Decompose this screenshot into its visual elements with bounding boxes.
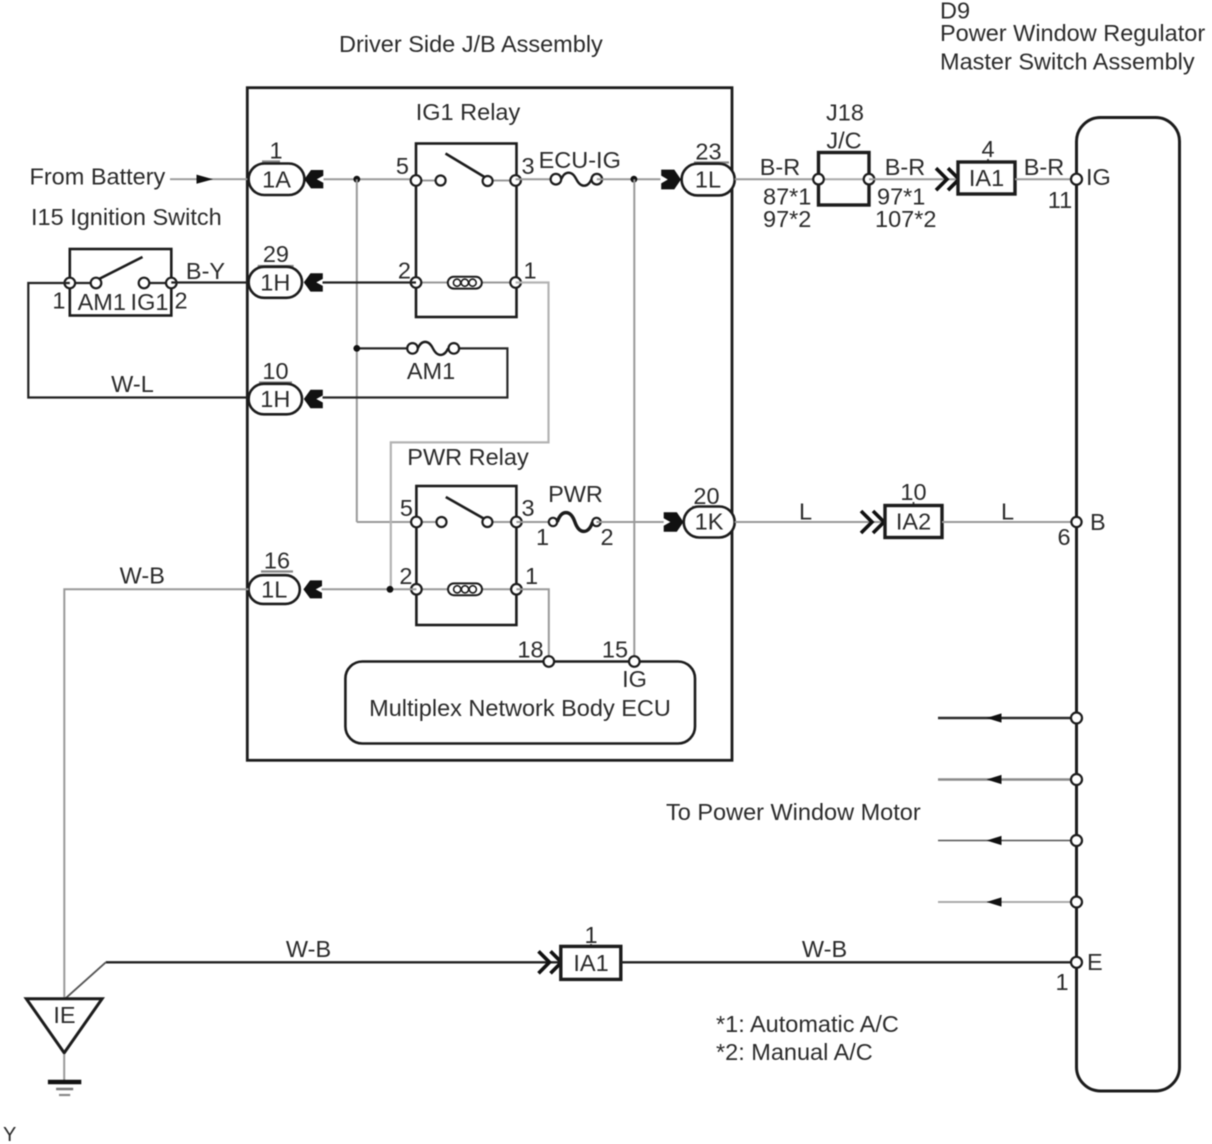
svg-text:J18: J18: [826, 100, 864, 126]
svg-text:PWR Relay: PWR Relay: [407, 444, 529, 470]
svg-text:B-Y: B-Y: [186, 258, 226, 284]
wire IG1 pin1 to ground net: [391, 283, 549, 590]
ignition switch pin 1: [65, 278, 76, 289]
svg-text:6: 6: [1057, 524, 1070, 550]
svg-text:4: 4: [981, 136, 994, 162]
connector oval 1H 10: [249, 384, 302, 415]
wire PWR pin3 to fuse: [516, 521, 550, 523]
svg-text:1L: 1L: [695, 167, 721, 193]
ECU pin 18: [544, 656, 555, 667]
junction node ECU-IG output: [631, 176, 638, 183]
wire PWR coil stubs: [416, 588, 448, 590]
wire IG1 pin5 to fixed contact: [416, 180, 441, 182]
svg-text:B-R: B-R: [885, 154, 925, 180]
relay IG1 pin 2: [411, 277, 422, 288]
svg-text:1: 1: [525, 563, 538, 589]
relay PWR pin 5: [411, 517, 422, 528]
connector wedge 23: [661, 170, 681, 190]
svg-text:PWR: PWR: [548, 481, 603, 507]
relay IG1 pin 5: [411, 175, 422, 186]
svg-text:W-B: W-B: [286, 936, 331, 962]
connector box IA1 bottom: [561, 946, 621, 979]
svg-text:23: 23: [695, 139, 721, 165]
svg-text:IA2: IA2: [896, 509, 931, 535]
fuse PWR: [549, 513, 601, 532]
wire W-B to ground: [64, 589, 248, 997]
wire 1H to IG1 relay pin 2: [323, 281, 417, 283]
svg-text:Y: Y: [3, 1124, 16, 1144]
svg-text:IG: IG: [622, 666, 647, 692]
wire IG1 pin3 to fuse: [516, 178, 556, 180]
label 10 terminal: [259, 358, 292, 384]
svg-text:I15 Ignition Switch: I15 Ignition Switch: [31, 204, 222, 230]
wire vertical battery feed to PWR relay pin 5: [356, 179, 358, 522]
wire IG1 coil stubs: [416, 282, 448, 284]
wire diagonal to ground: [66, 962, 106, 998]
wire J/C to IA1: [869, 178, 958, 180]
fuse AM1: [407, 342, 459, 355]
ground stub: [63, 1054, 65, 1080]
ignition switch pin 2: [166, 278, 177, 289]
svg-text:B: B: [1090, 509, 1106, 535]
wire ignition pin1 down: [28, 283, 248, 398]
relay PWR switch blade: [446, 497, 487, 521]
power window master switch D9 box: [1077, 118, 1180, 1092]
chevrons in-line connector bottom: [539, 951, 562, 973]
svg-text:5: 5: [400, 495, 413, 521]
connector oval 1L 23: [682, 164, 735, 196]
connector oval 1L 16: [249, 575, 300, 604]
svg-text:*2: Manual A/C: *2: Manual A/C: [716, 1039, 873, 1065]
svg-text:1H: 1H: [260, 270, 290, 296]
wire fuse to connector 1K: [597, 521, 664, 523]
connector box IA2: [885, 506, 942, 538]
connector oval 1K 20: [684, 507, 735, 538]
D9 terminal E: [1071, 957, 1082, 968]
arrow battery feed: [197, 175, 214, 184]
svg-text:W-L: W-L: [111, 371, 154, 397]
ECU box Multiplex Network Body ECU: [345, 662, 695, 744]
wire motor line 2: [938, 775, 1071, 784]
relay PWR pin 2: [411, 584, 422, 595]
wire AM1 loop: [323, 348, 508, 397]
wire ignition pin1 to AM1 contact: [70, 282, 96, 284]
junction node AM1 tap: [353, 345, 360, 352]
svg-text:To Power Window Motor: To Power Window Motor: [666, 799, 921, 825]
svg-text:*1: Automatic A/C: *1: Automatic A/C: [716, 1011, 899, 1037]
connector oval 1H 29: [249, 267, 302, 298]
wire PWR moving contact to pin3: [487, 521, 516, 523]
wire ignition IG1 contact to pin2: [144, 282, 171, 284]
svg-text:2: 2: [175, 288, 188, 314]
connector wedge 16: [303, 580, 322, 598]
svg-text:Master Switch Assembly: Master Switch Assembly: [940, 49, 1195, 75]
svg-text:IG1 Relay: IG1 Relay: [416, 99, 521, 125]
ignition switch contact AM1: [91, 278, 102, 289]
wire B-Y ignition to 1H: [171, 281, 248, 283]
junction block J/B box: [247, 88, 732, 761]
ground IE triangle: [26, 999, 102, 1053]
wire AM1 dot to fuse: [357, 347, 413, 349]
svg-text:L: L: [799, 499, 812, 525]
D9 terminal B: [1071, 517, 1081, 527]
label 23 terminal: [694, 139, 729, 165]
connector oval 1A: [249, 164, 305, 196]
relay IG1 pin 1: [510, 277, 521, 288]
svg-text:AM1: AM1: [407, 358, 455, 384]
svg-text:W-B: W-B: [120, 563, 165, 589]
svg-text:L: L: [1001, 499, 1014, 525]
svg-text:Power Window Regulator: Power Window Regulator: [940, 20, 1205, 46]
relay IG1 pin 3: [510, 175, 521, 186]
svg-text:16: 16: [264, 548, 290, 574]
label 1 terminal of connector 1A: [262, 138, 283, 164]
wire IG1 moving contact to pin3: [488, 180, 516, 182]
J18 left terminal: [813, 174, 824, 185]
wire 1L to PWR relay pin 2: [322, 588, 417, 590]
wire from battery: [170, 178, 249, 180]
wire W-B bottom left: [106, 961, 561, 963]
svg-text:Driver Side J/B Assembly: Driver Side J/B Assembly: [339, 31, 603, 57]
relay PWR moving contact: [482, 517, 492, 527]
svg-text:18: 18: [517, 637, 543, 663]
D9 motor terminal 1: [1071, 713, 1082, 724]
svg-text:3: 3: [522, 153, 535, 179]
svg-text:1: 1: [269, 138, 282, 164]
label 20 terminal: [692, 483, 721, 509]
svg-text:IG: IG: [1086, 164, 1111, 190]
relay PWR pin 3: [511, 517, 522, 528]
svg-text:97*2: 97*2: [763, 206, 811, 232]
svg-text:1K: 1K: [695, 509, 724, 535]
svg-text:2: 2: [399, 563, 412, 589]
ignition switch box: [70, 249, 172, 316]
wire motor line 3: [938, 836, 1071, 845]
wire B-R from 1L to J/C: [735, 178, 818, 180]
relay PWR box: [416, 486, 516, 625]
chevrons in-line connector top: [936, 168, 959, 190]
ignition switch blade: [98, 257, 143, 280]
relay PWR coil: [448, 583, 482, 595]
svg-text:10: 10: [262, 358, 288, 384]
relay IG1 moving contact: [483, 176, 493, 186]
relay IG1 switch blade: [446, 154, 488, 179]
relay IG1 fixed contact: [436, 176, 446, 186]
wire motor line 4: [938, 897, 1071, 906]
D9 terminal IG: [1071, 174, 1082, 185]
svg-text:1: 1: [52, 288, 65, 314]
svg-text:1: 1: [1055, 969, 1068, 995]
J18 right terminal: [864, 174, 875, 185]
svg-text:AM1: AM1: [78, 289, 126, 315]
D9 motor terminal 3: [1071, 835, 1082, 846]
svg-text:1: 1: [524, 258, 537, 284]
wire through J18 J/C: [819, 178, 870, 180]
svg-text:From Battery: From Battery: [30, 164, 166, 190]
wire PWR pin5 to fixed contact: [416, 521, 441, 523]
svg-text:11: 11: [1048, 187, 1072, 213]
ECU pin 15: [629, 656, 640, 667]
wire 1A to IG1 relay pin 5: [324, 178, 417, 180]
connector box IA1 top: [958, 162, 1015, 194]
junction connector J18 box: [819, 153, 870, 206]
label 4 terminal IA1: [981, 136, 994, 163]
svg-text:IG1: IG1: [131, 289, 169, 315]
svg-text:1H: 1H: [260, 386, 290, 412]
svg-text:W-B: W-B: [802, 936, 847, 962]
svg-text:1A: 1A: [262, 166, 291, 192]
svg-text:B-R: B-R: [1024, 154, 1064, 180]
relay PWR fixed contact: [437, 517, 447, 527]
ground bar 3: [59, 1094, 70, 1096]
fuse ECU-IG: [551, 173, 602, 186]
svg-text:15: 15: [602, 637, 628, 663]
svg-text:B-R: B-R: [760, 154, 800, 180]
svg-text:29: 29: [263, 241, 289, 267]
svg-text:IE: IE: [53, 1002, 75, 1028]
svg-text:1L: 1L: [261, 577, 287, 603]
wire to PWR relay pin 5: [357, 521, 417, 523]
relay PWR pin 1: [511, 584, 522, 595]
D9 motor terminal 2: [1071, 774, 1082, 785]
svg-text:IA1: IA1: [969, 165, 1004, 191]
relay IG1 coil: [448, 277, 482, 289]
wire W-B bottom right: [621, 961, 1071, 963]
svg-text:2: 2: [600, 524, 613, 550]
svg-text:1: 1: [536, 524, 549, 550]
svg-text:Multiplex Network Body ECU: Multiplex Network Body ECU: [369, 695, 671, 721]
svg-text:IA1: IA1: [573, 950, 608, 976]
relay IG1 box: [416, 144, 517, 318]
svg-text:107*2: 107*2: [875, 206, 936, 232]
svg-text:2: 2: [398, 258, 411, 284]
svg-text:20: 20: [693, 483, 719, 509]
connector wedge 20: [664, 512, 684, 532]
ground bar 1: [48, 1080, 81, 1085]
wire L from 1K to IA2: [735, 521, 885, 523]
wire IA2 to D9 terminal B: [942, 521, 1071, 523]
label 1 terminal IA1 bottom: [584, 922, 597, 948]
svg-text:5: 5: [396, 153, 409, 179]
ignition switch contact IG1: [139, 278, 150, 289]
junction node ground net: [387, 586, 394, 593]
svg-text:ECU-IG: ECU-IG: [539, 147, 621, 173]
connector wedge 29: [304, 273, 323, 291]
svg-text:E: E: [1087, 949, 1103, 975]
connector wedge 10: [304, 390, 323, 408]
junction node on battery wire: [353, 176, 360, 183]
connector wedge 1A: [304, 170, 323, 188]
svg-text:10: 10: [900, 479, 926, 505]
label 16 terminal: [261, 548, 293, 574]
wire fuse to connector 1L: [597, 178, 661, 180]
label 29 terminal: [258, 241, 294, 267]
wire IA1 to D9 terminal IG: [1015, 178, 1071, 180]
ground bar 2: [56, 1088, 73, 1091]
svg-text:3: 3: [522, 495, 535, 521]
wire down to ECU pin 15: [633, 179, 635, 661]
wire PWR pin1 to ECU pin 18: [516, 589, 548, 661]
svg-text:J/C: J/C: [826, 128, 861, 154]
wire motor line 1: [938, 713, 1071, 722]
label 10 terminal IA2: [900, 479, 926, 506]
D9 motor terminal 4: [1071, 897, 1082, 908]
chevrons in-line connector IA2: [861, 511, 884, 533]
